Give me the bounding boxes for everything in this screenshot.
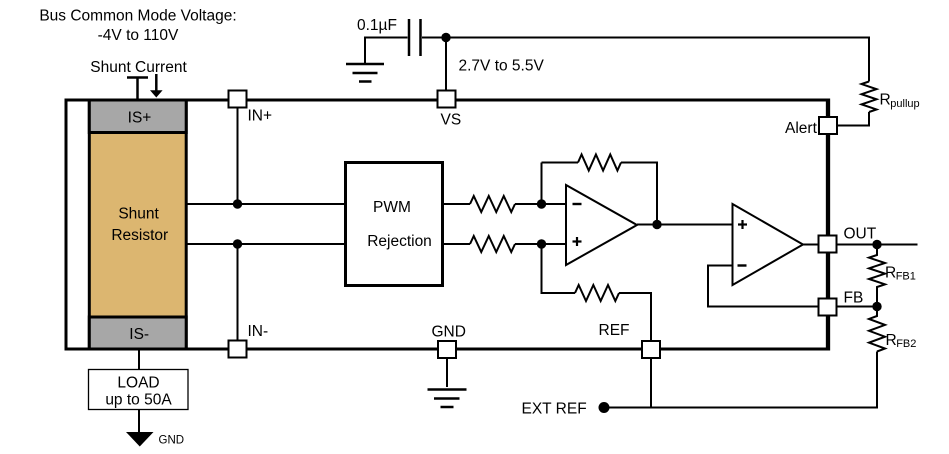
ground symbol at capacitor xyxy=(346,64,384,82)
shunt terminal IS- xyxy=(89,317,186,349)
resistor R4 ref xyxy=(575,285,619,301)
svg-text:IS-: IS- xyxy=(129,326,149,343)
svg-text:R: R xyxy=(880,92,891,109)
node A1 plus xyxy=(537,239,546,248)
wire A2 output to OUT pin xyxy=(803,244,819,246)
node junction IN- xyxy=(233,239,242,248)
wire load to ground xyxy=(138,410,140,434)
wire A2 feedback xyxy=(708,266,819,307)
svg-text:REF: REF xyxy=(599,322,630,339)
load block xyxy=(89,370,189,410)
wire OUT external xyxy=(837,244,918,246)
op-amp A1 xyxy=(566,185,637,265)
wire IS- to load xyxy=(138,350,140,370)
node A1 minus xyxy=(537,199,546,208)
wire R2 to plus input xyxy=(515,243,566,245)
wire shunt top output xyxy=(188,203,346,205)
svg-text:IN+: IN+ xyxy=(248,108,273,125)
wire REF pin down xyxy=(650,358,652,408)
resistor RFB2 xyxy=(869,307,885,352)
wire cap right to supply node xyxy=(422,37,446,39)
IC boundary U1 xyxy=(66,99,828,351)
svg-text:2.7V to 5.5V: 2.7V to 5.5V xyxy=(459,58,545,75)
node A1 output xyxy=(652,220,661,229)
ground symbol at GND pin xyxy=(428,358,467,407)
svg-text:GND: GND xyxy=(159,435,185,447)
wire supply rail to pullup xyxy=(446,38,869,82)
label RFB1 xyxy=(885,265,916,283)
wire FB external xyxy=(837,306,878,308)
svg-text:R: R xyxy=(886,332,897,349)
wire feedback up xyxy=(541,163,543,205)
svg-text:-4V to 110V: -4V to 110V xyxy=(98,27,179,44)
svg-text:IS+: IS+ xyxy=(128,109,152,126)
svg-text:IN-: IN- xyxy=(248,323,269,340)
wire A1 output xyxy=(637,224,733,226)
svg-text:Alert: Alert xyxy=(785,120,818,137)
wire PWM to R1 xyxy=(444,203,470,205)
wire cap left to ground xyxy=(365,38,408,64)
svg-text:Bus Common Mode Voltage:: Bus Common Mode Voltage: xyxy=(39,8,236,25)
pin IN- xyxy=(229,323,269,358)
wire pullup to Alert pin xyxy=(838,112,869,126)
shunt resistor body xyxy=(89,100,186,349)
wire IN- vertical xyxy=(237,244,239,341)
svg-text:pullup: pullup xyxy=(890,98,919,110)
svg-text:OUT: OUT xyxy=(844,226,877,243)
wire R1 to minus input xyxy=(515,203,566,205)
resistor Rpullup xyxy=(862,82,877,113)
pin OUT xyxy=(819,226,877,253)
pin FB xyxy=(819,290,864,316)
wire IN+ vertical xyxy=(237,108,239,205)
ground arrow at load xyxy=(126,432,154,447)
wire shunt bottom output xyxy=(188,243,346,245)
svg-text:FB: FB xyxy=(844,290,864,307)
svg-text:EXT REF: EXT REF xyxy=(522,401,587,418)
pin REF xyxy=(599,322,661,358)
svg-text:LOAD: LOAD xyxy=(117,375,159,392)
op-amp A2 xyxy=(733,204,804,285)
pin GND xyxy=(432,324,466,359)
wire VS drop xyxy=(445,38,447,92)
supply node junction xyxy=(441,33,450,42)
node OUT xyxy=(872,240,881,249)
resistor R2 input bottom xyxy=(470,236,515,252)
svg-text:FB2: FB2 xyxy=(896,338,916,350)
pin Alert xyxy=(785,117,837,137)
svg-text:Shunt Current: Shunt Current xyxy=(90,59,187,76)
label RFB2 xyxy=(886,332,917,350)
wire PWM to R2 xyxy=(444,243,470,245)
pin VS xyxy=(438,91,462,129)
wire RFB2 to ext ref line xyxy=(604,352,877,408)
current direction arrow xyxy=(150,74,163,98)
label Rpullup xyxy=(880,92,920,110)
wire feedback top left xyxy=(542,162,579,164)
wire R4 to REF pin xyxy=(619,293,651,341)
wire REF resistor down xyxy=(542,244,576,293)
current probe symbol xyxy=(127,78,148,99)
svg-text:Resistor: Resistor xyxy=(111,227,168,244)
pin IN+ xyxy=(229,91,273,125)
svg-text:VS: VS xyxy=(441,112,462,129)
capacitor C1 0.1uF xyxy=(357,17,421,56)
wire feedback top right xyxy=(621,163,657,225)
shunt terminal IS+ xyxy=(89,100,186,133)
svg-text:PWM: PWM xyxy=(373,199,411,216)
resistor R1 input top xyxy=(470,196,515,212)
resistor R3 feedback xyxy=(578,155,621,171)
svg-text:0.1µF: 0.1µF xyxy=(357,17,397,34)
svg-text:R: R xyxy=(885,265,896,282)
svg-text:FB1: FB1 xyxy=(896,271,916,283)
svg-text:Shunt: Shunt xyxy=(118,206,159,223)
shunt resistor label xyxy=(111,206,168,245)
svg-text:up to 50A: up to 50A xyxy=(105,392,172,409)
svg-text:Rejection: Rejection xyxy=(367,233,432,250)
text bus common mode voltage xyxy=(39,8,236,45)
node junction IN+ xyxy=(233,199,242,208)
PWM rejection block xyxy=(346,163,443,286)
resistor RFB1 xyxy=(869,245,885,307)
svg-text:GND: GND xyxy=(432,324,466,341)
node EXT REF xyxy=(599,402,610,413)
node FB xyxy=(872,302,881,311)
